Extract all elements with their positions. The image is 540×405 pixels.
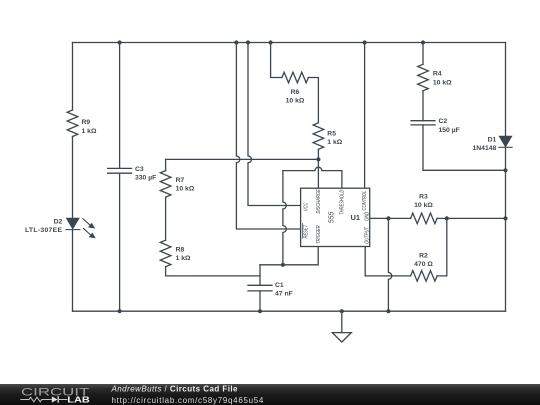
- node top rail VCC col: [246, 40, 250, 44]
- wire R7 to R8: [165, 197, 167, 240]
- wire C1 bottom lead: [259, 291, 261, 311]
- svg-text:VCC: VCC: [303, 202, 308, 211]
- svg-text:GND: GND: [364, 211, 369, 221]
- node top rail R6 col: [269, 40, 273, 44]
- wire GND row right: [437, 217, 505, 219]
- svg-text:150 µF: 150 µF: [439, 127, 460, 134]
- svg-text:R7: R7: [176, 177, 185, 184]
- svg-text:C3: C3: [135, 166, 144, 173]
- wire R2 right to GND row: [437, 218, 447, 276]
- node bottom C3: [118, 309, 122, 313]
- svg-text:1 kΩ: 1 kΩ: [82, 128, 97, 135]
- wire R5 bottom to DISCHARGE pin: [317, 149, 319, 188]
- svg-text:D2: D2: [54, 218, 63, 225]
- capacitor C2: [411, 121, 435, 125]
- svg-text:330 µF: 330 µF: [135, 175, 156, 182]
- wire CONTROL column: [364, 43, 366, 189]
- wire R4 column: [422, 43, 424, 65]
- resistor R9: [67, 110, 78, 136]
- footer bar: [0, 384, 540, 405]
- svg-text:U1: U1: [351, 213, 361, 222]
- node bottom ground: [340, 309, 344, 313]
- svg-text:D1: D1: [488, 136, 497, 143]
- ground: [341, 311, 343, 332]
- wire bottom rail: [73, 310, 506, 312]
- svg-text:OUTPUT: OUTPUT: [364, 226, 369, 244]
- capacitor C1: [248, 285, 272, 291]
- svg-text:10 kΩ: 10 kΩ: [414, 202, 433, 209]
- node C2 rail: [503, 168, 507, 172]
- footer title: [0, 384, 440, 405]
- logo CIRCUIT LAB: [14, 384, 114, 405]
- svg-text:R3: R3: [419, 193, 428, 200]
- svg-text:10 kΩ: 10 kΩ: [433, 80, 452, 87]
- wire link column with hops: [283, 171, 286, 265]
- svg-text:10 kΩ: 10 kΩ: [176, 185, 195, 192]
- op-amp U1 box: [301, 188, 370, 246]
- wire top rail: [73, 42, 506, 44]
- resistor R7: [160, 171, 171, 197]
- capacitor C3: [108, 168, 132, 173]
- wire THRESHOLD link with hop: [283, 167, 342, 188]
- svg-text:555: 555: [328, 212, 335, 224]
- svg-text:1N4148: 1N4148: [472, 145, 496, 152]
- wire left rail mid: [72, 137, 74, 219]
- svg-text:10 kΩ: 10 kΩ: [286, 97, 305, 104]
- svg-text:R2: R2: [419, 252, 428, 259]
- resistor R3: [411, 213, 438, 224]
- node trigger link: [281, 263, 285, 267]
- svg-text:47 nF: 47 nF: [275, 291, 293, 298]
- svg-text:LTL-307EE: LTL-307EE: [25, 227, 62, 234]
- wire GND column with hop: [388, 218, 391, 311]
- resistor R5: [313, 123, 324, 149]
- resistor R6: [282, 72, 309, 83]
- wire R6 to R5: [308, 78, 318, 123]
- wire C3 column upper: [119, 43, 121, 169]
- svg-text:1 kΩ: 1 kΩ: [176, 255, 191, 262]
- wire C3 column lower: [119, 173, 121, 311]
- node GND row rail: [503, 216, 507, 220]
- node top rail R4 col: [421, 40, 425, 44]
- wire RESET column with hop: [236, 43, 300, 230]
- svg-text:CONTROL: CONTROL: [362, 190, 367, 210]
- svg-text:1 kΩ: 1 kΩ: [327, 139, 342, 146]
- resistor R2: [411, 271, 438, 282]
- node top rail RESET col: [234, 40, 238, 44]
- svg-text:R9: R9: [82, 119, 91, 126]
- svg-text:AndrewButts / Circuts Cad File: AndrewButts / Circuts Cad File: [111, 385, 239, 394]
- node GND row left: [386, 216, 390, 220]
- wire C1 top lead: [259, 265, 261, 285]
- node top rail C3: [118, 40, 122, 44]
- svg-text:THRESHOLD: THRESHOLD: [339, 189, 344, 215]
- wire left rail upper: [72, 43, 74, 111]
- wire right rail lower: [505, 147, 507, 311]
- resistor R4: [418, 64, 429, 90]
- svg-text:R6: R6: [291, 89, 300, 96]
- LED arrows D2: [83, 219, 90, 226]
- wire VCC column with hop: [248, 43, 301, 206]
- svg-text:470 Ω: 470 Ω: [414, 261, 433, 268]
- svg-text:C1: C1: [275, 282, 284, 289]
- node GND row right: [445, 216, 449, 220]
- svg-text:RESET: RESET: [303, 224, 308, 239]
- svg-text:R8: R8: [176, 247, 185, 254]
- svg-text:TRIGGER: TRIGGER: [316, 225, 321, 244]
- wire TRIGGER row: [260, 247, 318, 265]
- wire R7 top lead: [165, 159, 167, 170]
- wire R4 to C2: [422, 91, 424, 121]
- wire right rail upper: [505, 43, 507, 137]
- node bottom GND col: [386, 309, 390, 313]
- node R5 bottom: [316, 157, 320, 161]
- diode D1: [500, 136, 512, 146]
- svg-text:R4: R4: [433, 71, 442, 78]
- resistor R8: [160, 240, 171, 267]
- node bottom C1: [258, 309, 262, 313]
- wire row159 R7 to node: [166, 158, 319, 160]
- svg-text:R5: R5: [327, 131, 336, 138]
- wire left rail lower: [72, 230, 74, 312]
- svg-text:C2: C2: [439, 118, 448, 125]
- wire R8 bottom to C1: [166, 267, 260, 276]
- wire C2 to right rail: [423, 125, 506, 170]
- svg-text:http://circuitlab.com/c58y79q4: http://circuitlab.com/c58y79q465u54: [112, 396, 265, 405]
- svg-text:DISCHARGE: DISCHARGE: [316, 188, 321, 213]
- wire GND row left: [370, 217, 411, 219]
- node top rail CONTROL col: [363, 40, 367, 44]
- diode D2 (LED): [67, 218, 79, 228]
- wire OUTPUT to R2: [365, 247, 410, 276]
- wire R6 branch from top rail: [271, 43, 282, 78]
